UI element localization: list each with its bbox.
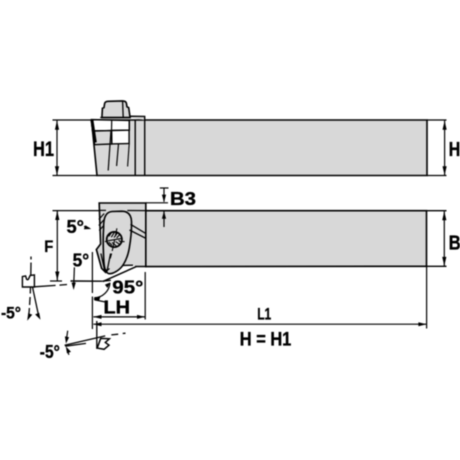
dimension LH line bbox=[93, 316, 145, 318]
svg-text:H = H1: H = H1 bbox=[240, 329, 292, 350]
dimension L1 line bbox=[93, 323, 426, 325]
clamp tip inner arc bbox=[104, 267, 110, 271]
clamp tip line 1 bbox=[101, 254, 105, 272]
detail2 lower wedge line bbox=[65, 343, 86, 346]
svg-text:5°: 5° bbox=[73, 249, 90, 270]
nose stub line bbox=[102, 279, 111, 282]
dimension B arrow down bbox=[442, 257, 446, 266]
svg-text:-5°: -5° bbox=[1, 303, 21, 322]
dimension H line bbox=[444, 121, 446, 176]
leader 5 deg upper arrow bbox=[84, 225, 91, 229]
angle 95 arc arrow upper bbox=[105, 282, 111, 288]
clamp step line 2 bbox=[130, 230, 146, 238]
detail1 face line dash bbox=[60, 284, 68, 287]
hidden shank line left segment bbox=[100, 209, 106, 211]
dimension B3 extension line bbox=[146, 202, 168, 204]
dimension F extension line bbox=[53, 210, 100, 212]
clamp knob side view bbox=[102, 101, 130, 118]
leader 5 deg upper shaft bbox=[84, 226, 90, 228]
insert side edge line 3 bbox=[99, 223, 106, 231]
svg-text:LH: LH bbox=[104, 297, 131, 317]
detail1 face line bbox=[34, 285, 55, 286]
svg-text:H1: H1 bbox=[33, 138, 54, 161]
detail1 axis centerline bbox=[29, 257, 31, 317]
detail2 face slanted line bbox=[65, 333, 126, 345]
dimension B3 lower arrow bbox=[162, 211, 166, 219]
insert side edge line 2 bbox=[99, 218, 106, 226]
clamp block divider line bbox=[111, 120, 113, 130]
hidden screw line 1 bbox=[108, 132, 111, 171]
dimension L1 extension right bbox=[426, 266, 428, 328]
clamp block white lower bbox=[112, 130, 130, 144]
dimension B3 top tick bbox=[160, 187, 169, 189]
clamp block white upper bbox=[92, 120, 130, 131]
dimension H1 arrow down bbox=[55, 166, 59, 175]
dimension L1 arrow right bbox=[418, 322, 426, 326]
dimension H extension top bbox=[427, 119, 447, 121]
screw hatch strokes bbox=[108, 232, 121, 246]
svg-text:H: H bbox=[449, 139, 460, 161]
dimension LH arrow left bbox=[93, 315, 101, 319]
detail1 tilted arrow bbox=[35, 313, 40, 320]
screw center tick left bbox=[105, 241, 108, 243]
head boundary line 1 bbox=[134, 120, 136, 176]
dimension H arrow up bbox=[443, 121, 447, 130]
dimension F arrow down bbox=[55, 272, 59, 281]
dimension B3 upper arrow bbox=[162, 195, 166, 203]
angle 95 base tick bbox=[94, 300, 105, 302]
dimension B extension top bbox=[427, 210, 447, 212]
feed centerline solid bbox=[71, 280, 103, 282]
detail2 vertical line bbox=[96, 321, 98, 349]
detail1 tilted line bbox=[33, 288, 39, 316]
head boundary line 2 bbox=[144, 120, 146, 176]
screw axis centerline bbox=[110, 228, 117, 258]
dimension L1 arrow left bbox=[93, 322, 101, 326]
insert pocket edge upper bbox=[107, 265, 134, 273]
dimension H1 arrow up bbox=[55, 121, 59, 130]
dimension B3 upper shaft bbox=[163, 188, 165, 202]
hidden shank line right segment bbox=[127, 210, 146, 212]
svg-text:-5°: -5° bbox=[40, 342, 60, 362]
dimension H1 line bbox=[56, 121, 58, 176]
angle 95 arc bbox=[94, 283, 110, 298]
clamp heel side view bbox=[100, 116, 145, 120]
clamp tip line 2 bbox=[107, 254, 111, 273]
svg-text:L1: L1 bbox=[257, 304, 271, 323]
detail2 insert section bbox=[97, 338, 109, 349]
dimension B3 lower shaft bbox=[163, 212, 165, 228]
leader 5 deg lower shaft bbox=[73, 267, 76, 283]
dimension B line bbox=[443, 211, 445, 266]
clamp step line 1 bbox=[131, 224, 146, 233]
dimension LH arrow right bbox=[137, 315, 145, 319]
hidden screw line 3 bbox=[128, 144, 130, 167]
svg-text:B: B bbox=[449, 233, 460, 255]
dimension F line bbox=[56, 211, 58, 281]
feed centerline dash left bbox=[50, 280, 62, 282]
dimension B extension bottom bbox=[427, 265, 447, 267]
insert plan (white) bbox=[103, 265, 136, 281]
dimension H1 extension bottom bbox=[53, 175, 98, 177]
detail1 axis arrow bbox=[27, 313, 32, 321]
detail1 insert section bbox=[22, 275, 34, 287]
detail2 lower arrow bbox=[66, 346, 71, 353]
insert cutting edge lower bbox=[103, 267, 136, 282]
dimension B arrow up bbox=[442, 211, 446, 220]
shank body side view bbox=[92, 120, 428, 176]
dimension LH extension right bbox=[144, 272, 146, 320]
dimension H1 extension top bbox=[53, 119, 93, 121]
leader 5 deg lower arrow bbox=[72, 282, 76, 290]
svg-text:95°: 95° bbox=[112, 277, 143, 297]
insert end edge line bbox=[96, 249, 101, 268]
dimension F arrow up bbox=[55, 211, 59, 220]
detail2 lower arrow shaft bbox=[67, 350, 69, 355]
clamp front dark edge bbox=[92, 120, 95, 143]
head block plan bbox=[96, 203, 145, 273]
dimension H extension bottom bbox=[427, 175, 447, 177]
detail2 upper arrow shaft bbox=[67, 331, 68, 339]
svg-text:F: F bbox=[44, 237, 53, 256]
shim gray wedge bbox=[93, 131, 112, 145]
angle 95 arc arrow lower bbox=[93, 296, 100, 301]
nose extension line vertical bbox=[91, 252, 93, 329]
detail2 upper arrow bbox=[65, 336, 69, 343]
screw head circle bbox=[107, 232, 122, 247]
clamp teardrop plan bbox=[103, 211, 131, 274]
screw center tick right bbox=[122, 241, 125, 243]
svg-text:B3: B3 bbox=[170, 189, 196, 209]
hidden screw line 2 bbox=[117, 144, 119, 166]
svg-text:5°: 5° bbox=[67, 216, 85, 237]
insert side edge line 1 bbox=[99, 214, 104, 220]
shank body plan bbox=[146, 211, 427, 267]
dimension H arrow down bbox=[443, 166, 447, 175]
